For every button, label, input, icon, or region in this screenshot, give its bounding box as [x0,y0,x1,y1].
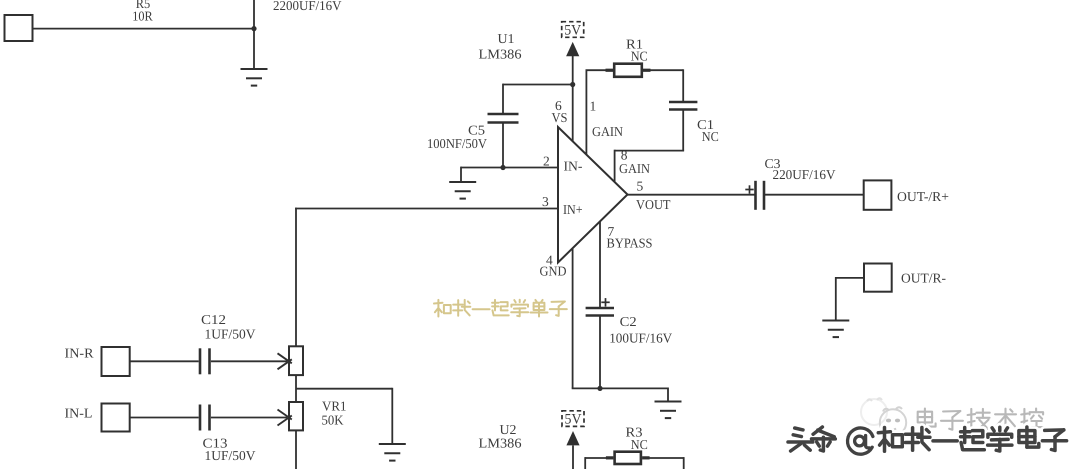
wire pin1 up [585,70,587,154]
svg-text:LM386: LM386 [479,46,522,61]
U1 pin 1 label [590,99,624,140]
U1 pin 2 label [543,153,583,173]
watermark mascot icon [861,398,906,435]
svg-text:LM386: LM386 [479,435,522,450]
wire VR1b down [295,430,297,469]
svg-text:IN-R: IN-R [65,345,94,360]
ground GND3 [822,321,849,338]
wire IN+ net (pin 3) [295,208,558,347]
svg-text:U1: U1 [498,31,515,46]
wire VR1 tap to ground [296,388,392,444]
wire pin 7 down to C2 [599,222,601,309]
svg-text:IN-: IN- [564,159,584,174]
capacitor C2 polarity + [601,298,609,306]
C13 labels [203,436,256,464]
svg-text:IN+: IN+ [563,202,583,217]
U1 pin 7 label [607,224,653,251]
port OUT/R- [864,264,947,292]
watermark text 3 halo [788,427,1067,454]
ground GND1 [241,69,268,86]
wire 5V2 down [572,446,574,469]
svg-text:BYPASS: BYPASS [607,236,653,251]
wire C12 to VR1a with arrow [211,353,292,369]
watermark text 3 [788,427,1067,454]
wire VOUT [628,194,757,196]
svg-text:50K: 50K [322,413,344,428]
U1 pin 4 label [540,252,567,278]
power +5V symbol PWR2 [562,411,584,446]
wire R3 right down [650,457,684,469]
U1 pin 6 VS label [552,98,568,125]
VR1 labels [322,399,347,428]
power +5V symbol PWR1 [562,22,584,57]
resistor R1 [606,64,651,77]
wire pin 4 down [572,248,668,388]
svg-text:100NF/50V: 100NF/50V [427,136,487,151]
svg-text:VOUT: VOUT [636,197,671,212]
svg-text:NC: NC [631,49,648,64]
C2 labels [609,314,672,345]
watermark text 2 [918,409,1044,431]
svg-text:GAIN: GAIN [592,124,623,139]
port OUT-/R+ [864,180,949,209]
svg-text:C12: C12 [201,312,226,327]
port IN-R [65,345,130,376]
capacitor C13 [200,405,210,431]
C3 labels [765,156,836,182]
R3 labels [626,424,648,452]
port P1 (supply input) [5,15,33,41]
ground GND5 [379,444,406,461]
wire IN-L to C13 [130,417,199,419]
U1 pin 8 label [619,147,650,176]
svg-text:NC: NC [631,437,648,452]
resistor R5 label [132,0,153,24]
watermark text 1 [434,300,567,317]
C5 value labels [427,123,487,152]
capacitor C3 [756,181,765,210]
wire C2 bottom [599,316,601,390]
ground GND2 [449,182,476,199]
svg-text:5: 5 [637,178,644,193]
capacitor C1 [669,102,697,110]
svg-text:IN-L: IN-L [65,406,93,421]
potentiometer VR1 section a [289,346,303,375]
wire C13 to VR1b with arrow [211,410,292,426]
svg-text:220UF/16V: 220UF/16V [773,167,836,182]
svg-text:2: 2 [543,153,550,168]
wire 5V to VS pin 6 [572,56,574,141]
wire C5 top to VS net [503,84,573,114]
op-amp U2 labels [479,422,522,450]
junction node VS/C5 [570,82,575,87]
wire R1 to C1 [651,69,684,102]
capacitor C3 polarity + [745,185,753,193]
junction node C5/IN- [500,165,505,170]
svg-text:VR1: VR1 [322,399,347,414]
svg-text:GAIN: GAIN [619,161,650,176]
svg-text:1UF/50V: 1UF/50V [205,448,256,463]
op-amp U1 LM386 triangle [558,127,628,263]
ground GND4 [655,402,682,419]
capacitor C12 [200,348,210,374]
wire C3 to port [764,194,864,196]
wire to GND4 [667,388,669,402]
U1 pin 5 label [636,178,671,212]
capacitor C2 [586,308,614,316]
svg-text:OUT-/R+: OUT-/R+ [897,189,949,204]
capacitor C5 [488,114,519,123]
svg-text:2200UF/16V: 2200UF/16V [273,0,342,13]
svg-text:8: 8 [621,147,628,162]
wire vertical from top cap [253,0,255,69]
svg-text:3: 3 [542,194,549,209]
svg-text:1UF/50V: 1UF/50V [205,327,256,342]
wire C1 to pin 8 [615,110,685,182]
U1 pin 3 label [542,194,583,217]
svg-text:5V: 5V [565,412,582,428]
C1 labels [697,117,719,144]
R1 labels [626,37,648,64]
wire OUT/R- to ground [836,277,864,321]
svg-text:1: 1 [590,99,597,114]
potentiometer VR1 section b [289,402,303,430]
junction node C2/GND net [597,386,602,391]
wire between VR1 sections [295,375,297,402]
port IN-L [65,404,130,432]
svg-text:OUT/R-: OUT/R- [901,270,947,285]
svg-text:VS: VS [552,110,568,125]
resistor R3 [606,452,650,464]
C12 labels [201,312,256,341]
svg-text:GND: GND [540,264,567,279]
junction node supply [251,26,256,31]
svg-text:10R: 10R [132,9,153,24]
svg-text:C2: C2 [620,314,637,329]
wire IN- net (pin 2) [461,167,558,182]
wire C5 bottom to IN- net [502,123,504,168]
svg-text:5V: 5V [564,22,581,38]
wire supply to node [33,28,255,30]
U1 designator labels [479,31,522,62]
wire IN-R to C12 [130,360,199,362]
svg-text:NC: NC [702,129,719,144]
svg-text:100UF/16V: 100UF/16V [609,331,672,346]
wire pin1 to R1 [586,69,607,71]
capacitor C4 value label 2200UF/16V [273,0,342,13]
wire U2 pin1 loop left [585,457,606,469]
